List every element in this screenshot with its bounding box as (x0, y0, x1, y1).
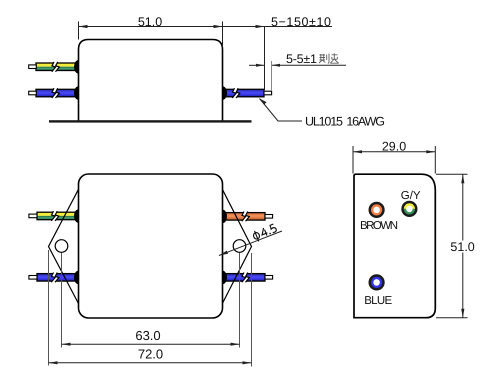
svg-text:UL1015 16AWG: UL1015 16AWG (305, 115, 385, 129)
svg-text:29.0: 29.0 (382, 139, 406, 153)
label 剥皮 (strip) glyphs (319, 53, 339, 63)
dim 29.0 (353, 146, 435, 174)
svg-text:G/Y: G/Y (401, 190, 421, 202)
svg-text:63.0: 63.0 (135, 328, 160, 343)
dim 63.0 (62, 343, 240, 345)
dim 5-150±10 (223, 27, 333, 91)
wire brown right (plan) (223, 212, 273, 222)
base plate (side view) (49, 120, 252, 122)
svg-text:51.0: 51.0 (450, 240, 474, 254)
mounting hole left (55, 240, 68, 253)
filter body (end view) (354, 174, 435, 318)
grommet left top (side view) (74, 60, 79, 74)
filter body (side view) (79, 40, 223, 122)
dim 51.0 (side view) (79, 22, 223, 48)
mounting ear right (plan) (217, 179, 252, 314)
grommet right (side view) (223, 86, 228, 100)
svg-text:5−150±10: 5−150±10 (271, 15, 331, 29)
grommet G/Y (plan) (74, 209, 79, 223)
grommet left bottom (side view) (74, 86, 79, 100)
dim 72.0 (49, 362, 252, 364)
grommet blue-right (plan) (223, 271, 228, 285)
leader φ4.5 (219, 231, 282, 256)
svg-text:72.0: 72.0 (138, 346, 163, 361)
svg-text:5-5±1: 5-5±1 (286, 52, 317, 66)
grommet brown (plan) (223, 210, 228, 224)
wire blue right (plan) (223, 273, 273, 283)
terminal G/Y (401, 201, 417, 217)
wire blue left (plan) (29, 273, 79, 283)
dim 5-5±1 stripped (249, 61, 346, 91)
wire blue left (side view) (29, 88, 79, 98)
dim 51.0 (end view) (436, 174, 468, 318)
grommet blue-left (plan) (74, 271, 79, 285)
mounting ear left (plan) (49, 179, 85, 314)
leader UL1015 16AWG (260, 99, 303, 122)
svg-text:51.0: 51.0 (138, 15, 162, 29)
extension lines (plan dims) (49, 250, 252, 367)
wire G/Y left (plan) (29, 211, 79, 221)
filter body (plan) (79, 174, 223, 318)
svg-text:BLUE: BLUE (364, 295, 392, 307)
wire blue right (side view) (223, 88, 272, 98)
wire G/Y left (side view) (29, 62, 79, 72)
terminal BLUE (369, 274, 385, 290)
mounting hole right (233, 240, 246, 253)
svg-text:BROWN: BROWN (360, 220, 398, 232)
terminal BROWN (369, 202, 385, 218)
